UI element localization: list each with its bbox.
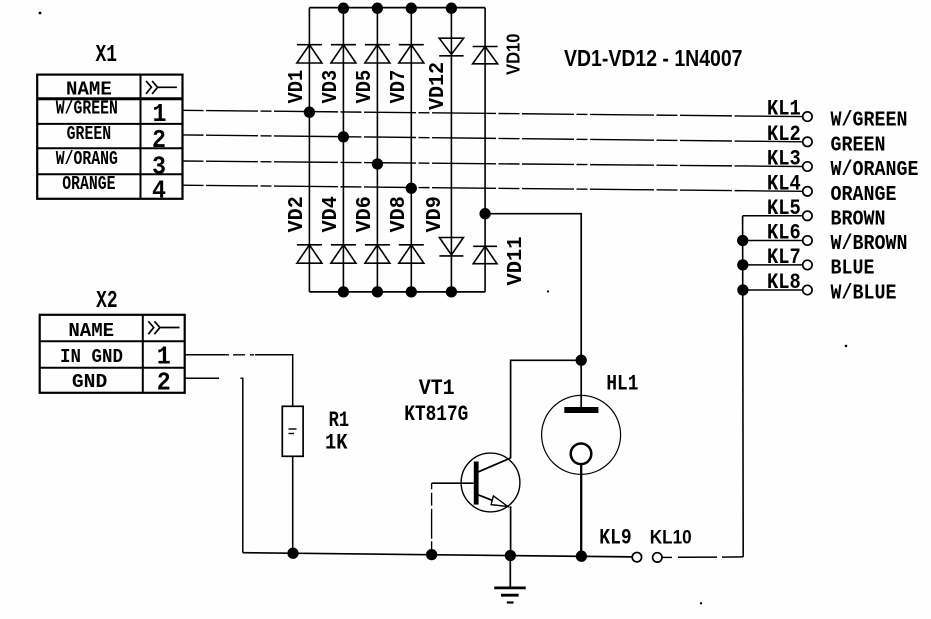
- junction: bottom bus / column 5: [446, 286, 457, 297]
- wire: bridge column 3: [376, 8, 378, 292]
- svg-text:GND: GND: [72, 371, 107, 393]
- label KT817G: [404, 402, 468, 427]
- svg-text:KT817G: KT817G: [404, 402, 468, 427]
- svg-text:KL2: KL2: [767, 122, 801, 147]
- junction: bottom bus / column 4: [406, 286, 417, 297]
- svg-text:VD12: VD12: [427, 62, 450, 110]
- label wire color W/BROWN: [831, 233, 908, 256]
- wire: X2 pin 1 to R1: [185, 355, 293, 407]
- resistor R1: [282, 406, 303, 456]
- X2 header pin symbol: [148, 321, 179, 334]
- junction: row 3 / bridge column 3: [372, 158, 383, 169]
- wire: bridge column 1: [308, 8, 310, 292]
- X1 header NAME: [66, 78, 112, 100]
- svg-text:GREEN: GREEN: [831, 135, 886, 158]
- svg-text:VD7: VD7: [388, 70, 411, 104]
- diode VD9: [424, 196, 463, 256]
- label wire color W/BLUE: [831, 283, 897, 306]
- wire: bridge column 4: [410, 8, 412, 292]
- terminal KL6: [803, 236, 812, 245]
- X1 row 2: GREEN: [67, 123, 166, 155]
- svg-text:NAME: NAME: [68, 320, 114, 342]
- wire: HL1 top lead: [580, 360, 582, 408]
- lamp HL1: [542, 395, 621, 474]
- label KL1: [767, 97, 801, 122]
- X1 header pin symbol: [146, 81, 177, 94]
- svg-text:KL9: KL9: [599, 526, 631, 551]
- svg-text:W/BROWN: W/BROWN: [831, 233, 908, 256]
- terminal KL10: [653, 553, 662, 562]
- junction: HL1 / rail: [576, 551, 587, 562]
- connector X1 label: [96, 42, 118, 69]
- label wire color BROWN: [831, 209, 886, 232]
- X2 header NAME: [68, 320, 114, 342]
- terminal KL9: [632, 553, 641, 562]
- wire: X1 pin 1 to KL1: [183, 110, 803, 116]
- label KL9: [599, 526, 631, 551]
- svg-text:2: 2: [157, 368, 171, 398]
- label KL6: [767, 221, 801, 246]
- svg-text:KL5: KL5: [767, 196, 801, 221]
- svg-text:W/ORANGE: W/ORANGE: [831, 159, 919, 182]
- diode VD2: [286, 196, 322, 263]
- wire: HL1 bottom lead: [580, 464, 582, 556]
- X1 row 4: ORANGE: [62, 173, 166, 206]
- svg-text:VT1: VT1: [419, 376, 455, 401]
- label KL7: [767, 245, 801, 270]
- wire: VT1 emitter to rail: [510, 506, 512, 555]
- svg-text:W/BLUE: W/BLUE: [831, 283, 897, 306]
- junction: KL7 tap: [737, 259, 748, 270]
- wire: KL5 stub: [743, 215, 803, 217]
- label: VD1-VD12 - 1N4007: [564, 45, 743, 71]
- junction: bottom bus / column 2: [338, 286, 349, 297]
- label KL4: [767, 171, 801, 196]
- terminal KL7: [803, 260, 812, 269]
- svg-text:VD5: VD5: [354, 70, 377, 104]
- junction: KL8 tap: [737, 284, 748, 295]
- svg-text:IN GND: IN GND: [60, 346, 123, 368]
- diode VD4: [320, 196, 356, 263]
- junction: bridge output (column 6): [479, 208, 490, 219]
- junction: row 1 / bridge column 1: [304, 107, 315, 118]
- junction: top bus / column 4: [406, 3, 417, 14]
- wire: X1 pin 2 to KL2: [183, 135, 803, 142]
- junction: bottom bus / column 3: [372, 286, 383, 297]
- diode VD12: [427, 38, 464, 110]
- junction: top bus / column 5: [446, 3, 457, 14]
- label VT1: [419, 376, 455, 401]
- terminal KL4: [803, 187, 812, 196]
- label HL1: [606, 371, 638, 396]
- diode VD1: [286, 45, 322, 104]
- svg-text:KL8: KL8: [767, 270, 801, 295]
- terminal KL5: [803, 211, 812, 220]
- label KL5: [767, 196, 801, 221]
- svg-text:ORANGE: ORANGE: [831, 184, 897, 207]
- wire: KL7 stub: [743, 264, 803, 266]
- svg-text:GREEN: GREEN: [67, 123, 112, 145]
- junction: top bus / column 2: [338, 3, 349, 14]
- connector table X1: [37, 75, 182, 199]
- diode VD8: [388, 196, 424, 263]
- svg-text:W/GREEN: W/GREEN: [831, 109, 908, 132]
- wire: KL6 stub: [743, 240, 803, 242]
- svg-text:KL6: KL6: [767, 221, 801, 246]
- label KL8: [767, 270, 801, 295]
- svg-text:4: 4: [152, 176, 166, 206]
- junction: emitter / rail: [505, 550, 516, 561]
- wire: bridge column 6: [484, 8, 486, 292]
- wire: bridge column 5: [450, 8, 452, 292]
- terminal KL3: [803, 162, 812, 171]
- svg-text:BROWN: BROWN: [831, 209, 886, 232]
- label wire color W/ORANGE: [831, 159, 919, 182]
- svg-text:VD2: VD2: [286, 196, 309, 232]
- svg-text:R1: R1: [329, 408, 350, 433]
- connector X2 label: [96, 288, 118, 315]
- terminal KL1: [803, 112, 812, 121]
- wire: X2 pin 2 to ground rail: [185, 378, 243, 552]
- svg-text:KL3: KL3: [767, 147, 801, 172]
- junction: R1 / rail: [287, 548, 298, 559]
- X1 row 3: W/ORANG: [56, 148, 166, 181]
- wire: branch to VT1 collector: [511, 360, 582, 458]
- junction: row 4 / bridge column 4: [406, 183, 417, 194]
- transistor VT1: [461, 453, 520, 512]
- svg-text:W/GREEN: W/GREEN: [56, 98, 118, 120]
- svg-text:VD4: VD4: [320, 196, 343, 232]
- wire: VT1 base to rail: [431, 483, 433, 554]
- label R1 value: [325, 408, 349, 456]
- X2 row 1: IN GND: [60, 342, 171, 372]
- label KL3: [767, 147, 801, 172]
- wire: KL8 stub: [743, 289, 803, 291]
- label KL2: [767, 122, 801, 147]
- label wire color W/GREEN: [831, 109, 908, 132]
- terminal KL2: [803, 137, 812, 146]
- svg-text:VD11: VD11: [505, 237, 528, 286]
- label wire color ORANGE: [831, 184, 897, 207]
- wire: diode bridge top bus: [309, 7, 485, 9]
- connector table X2: [40, 315, 185, 393]
- svg-text:VD8: VD8: [388, 196, 411, 232]
- wire: X1 pin 4 to KL4: [183, 185, 803, 191]
- svg-text:1K: 1K: [325, 431, 348, 456]
- svg-text:VD1: VD1: [286, 70, 309, 104]
- wire: rail right segment KL10 to KL bus: [662, 556, 743, 559]
- wire: VT1 base lead: [432, 482, 474, 484]
- svg-text:HL1: HL1: [606, 371, 638, 396]
- svg-text:KL7: KL7: [767, 245, 801, 270]
- svg-text:W/ORANG: W/ORANG: [56, 148, 118, 170]
- svg-text:VD10: VD10: [503, 34, 524, 76]
- label wire color BLUE: [831, 258, 875, 281]
- junction: top bus / column 3: [372, 3, 383, 14]
- svg-text:BLUE: BLUE: [831, 258, 875, 281]
- junction: KL6 tap: [737, 235, 748, 246]
- diode VD11: [473, 237, 528, 286]
- junction: base wire / rail: [426, 549, 437, 560]
- diode VD5: [354, 45, 390, 104]
- wire: bridge output to HL1/VT1 branch: [485, 214, 581, 361]
- X1 row 1: W/GREEN: [56, 98, 167, 130]
- svg-text:VD9: VD9: [424, 196, 447, 232]
- junction: HL1 top / collector branch: [576, 355, 587, 366]
- svg-text:VD3: VD3: [320, 70, 343, 104]
- wire: X1 pin 3 to KL3: [183, 161, 803, 167]
- svg-text:2: 2: [152, 125, 166, 155]
- wire: ground rail (left segment): [243, 553, 632, 557]
- diode VD7: [388, 45, 424, 104]
- junction: row 2 / bridge column 2: [338, 131, 349, 142]
- diode VD6: [354, 196, 390, 263]
- wire: diode bridge bottom bus: [309, 291, 485, 293]
- ground: [494, 556, 526, 603]
- svg-text:VD1-VD12 - 1N4007: VD1-VD12 - 1N4007: [564, 45, 743, 71]
- diode VD3: [320, 45, 356, 104]
- svg-text:KL4: KL4: [767, 171, 801, 196]
- label wire color GREEN: [831, 135, 886, 158]
- X2 row 2: GND: [72, 368, 171, 398]
- svg-text:ORANGE: ORANGE: [62, 173, 115, 195]
- svg-text:KL1: KL1: [767, 97, 801, 122]
- wire: KL5 bus vertical: [742, 216, 745, 557]
- diode VD10: [473, 34, 524, 76]
- svg-text:X2: X2: [96, 288, 118, 315]
- terminal KL8: [803, 285, 812, 294]
- wire: bridge column 2: [342, 8, 344, 292]
- svg-text:KL10: KL10: [650, 527, 692, 549]
- svg-text:VD6: VD6: [354, 196, 377, 232]
- wire: R1 bottom lead: [292, 456, 294, 553]
- label KL10: [650, 527, 692, 549]
- svg-text:X1: X1: [96, 42, 118, 69]
